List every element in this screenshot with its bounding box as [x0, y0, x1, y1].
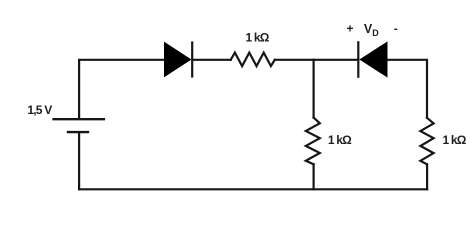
wire D1 cathode to resistor R1: [193, 59, 231, 61]
node A junction: vertical wire down to resistor R2: [313, 60, 315, 118]
wire top-left segment (battery + to diode D1): [79, 60, 164, 118]
battery V1 long plate (+): [52, 118, 105, 120]
svg-text:1 kΩ: 1 kΩ: [328, 133, 352, 147]
diode D2 cathode bar: [357, 42, 359, 76]
svg-text:1,5 V: 1,5 V: [27, 103, 52, 117]
wire battery - to bottom rail: [78, 133, 80, 189]
wire R3 to bottom rail: [426, 164, 428, 189]
diode D1 triangle (points right): [165, 43, 191, 77]
diode D1 cathode bar: [191, 43, 193, 77]
svg-text:1 kΩ: 1 kΩ: [442, 133, 466, 147]
battery V1 short plate (-): [67, 131, 89, 133]
wire node A to diode D2 cathode bar: [314, 59, 359, 61]
svg-text:VD: VD: [364, 22, 379, 38]
wire R1 to node A: [275, 59, 314, 61]
resistor R1 1 kOhm horizontal zigzag: [231, 53, 275, 67]
svg-text:1 kΩ: 1 kΩ: [245, 31, 269, 45]
svg-text:+: +: [346, 22, 353, 36]
resistor R3 1 kOhm vertical zigzag (right): [420, 118, 433, 165]
wire bottom rail: [79, 188, 427, 190]
resistor R2 1 kOhm vertical zigzag (middle): [306, 118, 320, 165]
wire D2 anode to right rail: [387, 60, 427, 118]
diode D2 triangle (points left): [360, 42, 387, 76]
wire R2 to bottom rail: [313, 164, 315, 189]
svg-text:-: -: [394, 22, 398, 36]
